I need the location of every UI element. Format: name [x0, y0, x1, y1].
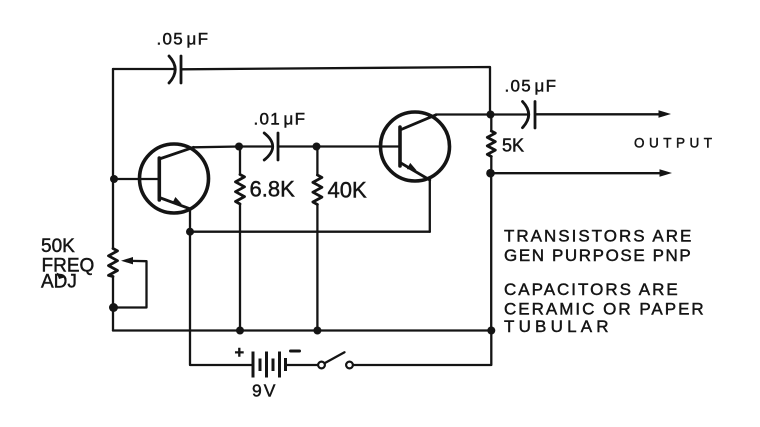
wire: left rail lower segment [112, 277, 114, 331]
node: bottom rail right junction dot [487, 327, 495, 335]
artifact mark above ADJ [57, 273, 67, 280]
wire: Q1 collector to node A [194, 145, 240, 148]
svg-text:5K: 5K [502, 136, 524, 156]
transistor Q2 (PNP, right) [381, 112, 450, 181]
svg-text:9V: 9V [252, 380, 277, 400]
node C junction dot (collector / C3 / R3 top) [487, 111, 495, 119]
node: R2 bottom rail junction dot [313, 327, 321, 335]
wire: emitter bus horizontal [190, 231, 430, 233]
capacitor C3 .05uF (output coupling) [491, 102, 661, 129]
wire: bottom rail [113, 329, 491, 331]
svg-text:.05μF: .05μF [157, 30, 210, 49]
battery BT1 9V [253, 352, 286, 378]
svg-text:TRANSISTORS ARE: TRANSISTORS ARE [504, 227, 693, 246]
svg-text:GEN PURPOSE PNP: GEN PURPOSE PNP [504, 246, 692, 265]
wire: Q2 emitter down to emitter bus [429, 180, 431, 232]
arrow: output top [659, 110, 672, 118]
svg-text:6.8K: 6.8K [250, 177, 296, 202]
node: junction dot on left rail at Q1 base [110, 175, 118, 183]
wire: output lower line [491, 172, 661, 174]
resistor R3 5K [487, 115, 495, 174]
wire: Q1 base wire from left rail [113, 178, 159, 180]
wire: top rail right of C1 down to collector node of Q2 [181, 67, 490, 115]
svg-text:40K: 40K [328, 178, 367, 203]
resistor R2 40K [313, 147, 322, 331]
wire: top rail left of C1 [113, 68, 175, 70]
node A junction dot (C2 left / R1 top) [235, 143, 243, 151]
svg-text:.01μF: .01μF [254, 110, 307, 129]
wire: Q2 collector to node C [436, 113, 490, 115]
svg-text:CAPACITORS ARE: CAPACITORS ARE [504, 280, 680, 299]
resistor R1 6.8K [236, 147, 245, 331]
svg-text:+: + [235, 344, 245, 362]
wire: left rail upper segment [112, 69, 114, 249]
svg-text:OUTPUT: OUTPUT [634, 136, 717, 151]
svg-text:CERAMIC OR PAPER: CERAMIC OR PAPER [504, 300, 706, 319]
transistor Q1 (PNP, left) [140, 144, 209, 213]
svg-text:50K: 50K [41, 236, 75, 257]
svg-text:TUBULAR: TUBULAR [504, 317, 613, 336]
arrow: output bottom [660, 169, 673, 177]
wire: node D down to bottom rail [490, 173, 492, 330]
capacitor C1 .05uF (top feedback) [169, 56, 181, 83]
wire: battery minus to switch [286, 364, 319, 366]
potentiometer R4 50K (freq adj) [109, 249, 147, 308]
svg-text:.05μF: .05μF [505, 77, 558, 96]
wire: Q1 emitter down to emitter bus [189, 209, 191, 232]
node: pot wiper return junction dot [109, 303, 118, 312]
wire: switch to right rail [353, 331, 491, 366]
node: R1 bottom rail junction dot [236, 327, 244, 335]
label battery minus [291, 350, 300, 353]
capacitor C2 .01uF (interstage) [239, 133, 317, 160]
node D junction dot (R3 bottom / output lower) [486, 169, 495, 178]
wire: node B to Q2 base [317, 145, 401, 147]
node: emitter bus left junction dot [186, 228, 194, 236]
wire: emitter node down to battery plus [190, 232, 252, 365]
node B junction dot (C2 right / R2 top) [313, 143, 321, 151]
switch S1 [318, 352, 353, 368]
